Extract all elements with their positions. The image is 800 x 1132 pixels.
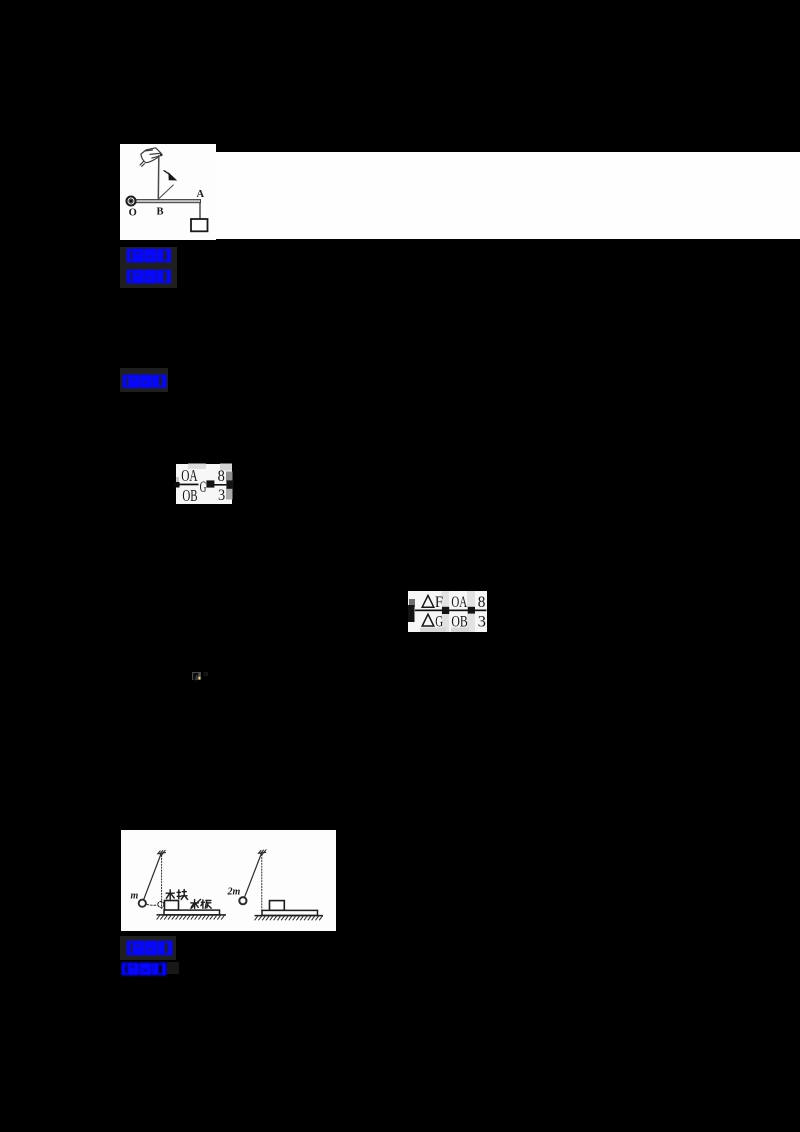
arrow shaft [164, 171, 170, 175]
lever diagram svg [120, 144, 216, 240]
gray jpeg stripes [442, 591, 450, 632]
right pivot mark [258, 852, 266, 853]
right board [262, 910, 318, 915]
figure 2 panel: pendulum diagram white box [121, 830, 336, 931]
label muban (wooden board) strokes [191, 899, 211, 908]
figure 1 panel: lever diagram white box [120, 144, 216, 240]
dashed circle rest position [158, 901, 164, 907]
label mukuai (wooden block) strokes [166, 890, 187, 900]
left edge dark blob [408, 605, 415, 622]
svg-text:O: O [129, 208, 137, 219]
finger pinch blob [160, 153, 163, 156]
left dashed vertical [161, 856, 163, 909]
svg-text:3: 3 [478, 614, 486, 631]
svg-text:3: 3 [218, 487, 225, 504]
left ground line [157, 914, 227, 916]
left string [143, 854, 161, 902]
diagonal line at B [159, 185, 173, 199]
svg-text:A: A [197, 189, 205, 200]
long fraction bar [415, 610, 487, 612]
equals blob [206, 480, 214, 487]
small gray patch right of line 2 [167, 962, 179, 974]
right edge black mark [226, 480, 233, 488]
svg-text:B: B [157, 207, 164, 218]
highlight block pair 3 background [120, 936, 176, 960]
svg-text:OB: OB [182, 486, 197, 505]
svg-text:G: G [435, 614, 443, 631]
svg-text:OA: OA [451, 594, 467, 611]
highlight block pair 1 background [120, 247, 177, 288]
top white strip [216, 152, 800, 239]
highlight block 2 background [120, 368, 168, 392]
svg-text:OA: OA [181, 466, 197, 485]
gray jpeg patches [188, 464, 206, 470]
right ground line [255, 915, 324, 917]
right string [244, 854, 261, 899]
formula image 1: OA/OB G = 8/3 [176, 464, 232, 505]
svg-text:8: 8 [478, 594, 486, 611]
blue tag fenxi 1 [126, 269, 172, 284]
equals blob 2 [468, 607, 475, 614]
arrowhead [168, 172, 177, 180]
svg-text:OB: OB [451, 614, 467, 631]
svg-text:G: G [200, 479, 207, 496]
blue tag fenxi 2 [121, 962, 167, 976]
svg-text:8: 8 [218, 468, 225, 485]
right ball 2m [239, 897, 246, 904]
left pivot mark [158, 853, 166, 854]
blue tag jieda [122, 374, 167, 389]
left ground hatching [157, 915, 225, 920]
svg-text:2m: 2m [227, 887, 241, 898]
svg-text:m: m [131, 891, 139, 902]
tiny gold pen icon [192, 672, 202, 681]
left block [165, 901, 179, 911]
blue tag kaodian 1 [126, 248, 172, 263]
pivot O rings [127, 197, 136, 206]
delta F [422, 595, 434, 607]
left edge black mark [174, 482, 180, 488]
weight block [191, 219, 208, 231]
left board [164, 910, 220, 915]
right block [270, 901, 285, 911]
formula image 2: dF/dG = OA/OB = 8/3 [408, 591, 487, 632]
string from hand to B [157, 156, 160, 199]
blue tag kaodian 2 [126, 940, 173, 956]
pointer line from mukuai label [164, 900, 167, 903]
equals blob 1 [442, 607, 449, 614]
right ground hatching [255, 916, 323, 921]
delta G [422, 614, 434, 626]
rope at A [199, 203, 201, 219]
lever bar [131, 200, 201, 203]
dashed swing arc [147, 904, 158, 905]
hand sketch [141, 148, 161, 154]
right dashed vertical [261, 855, 263, 911]
left ball m [139, 900, 146, 907]
